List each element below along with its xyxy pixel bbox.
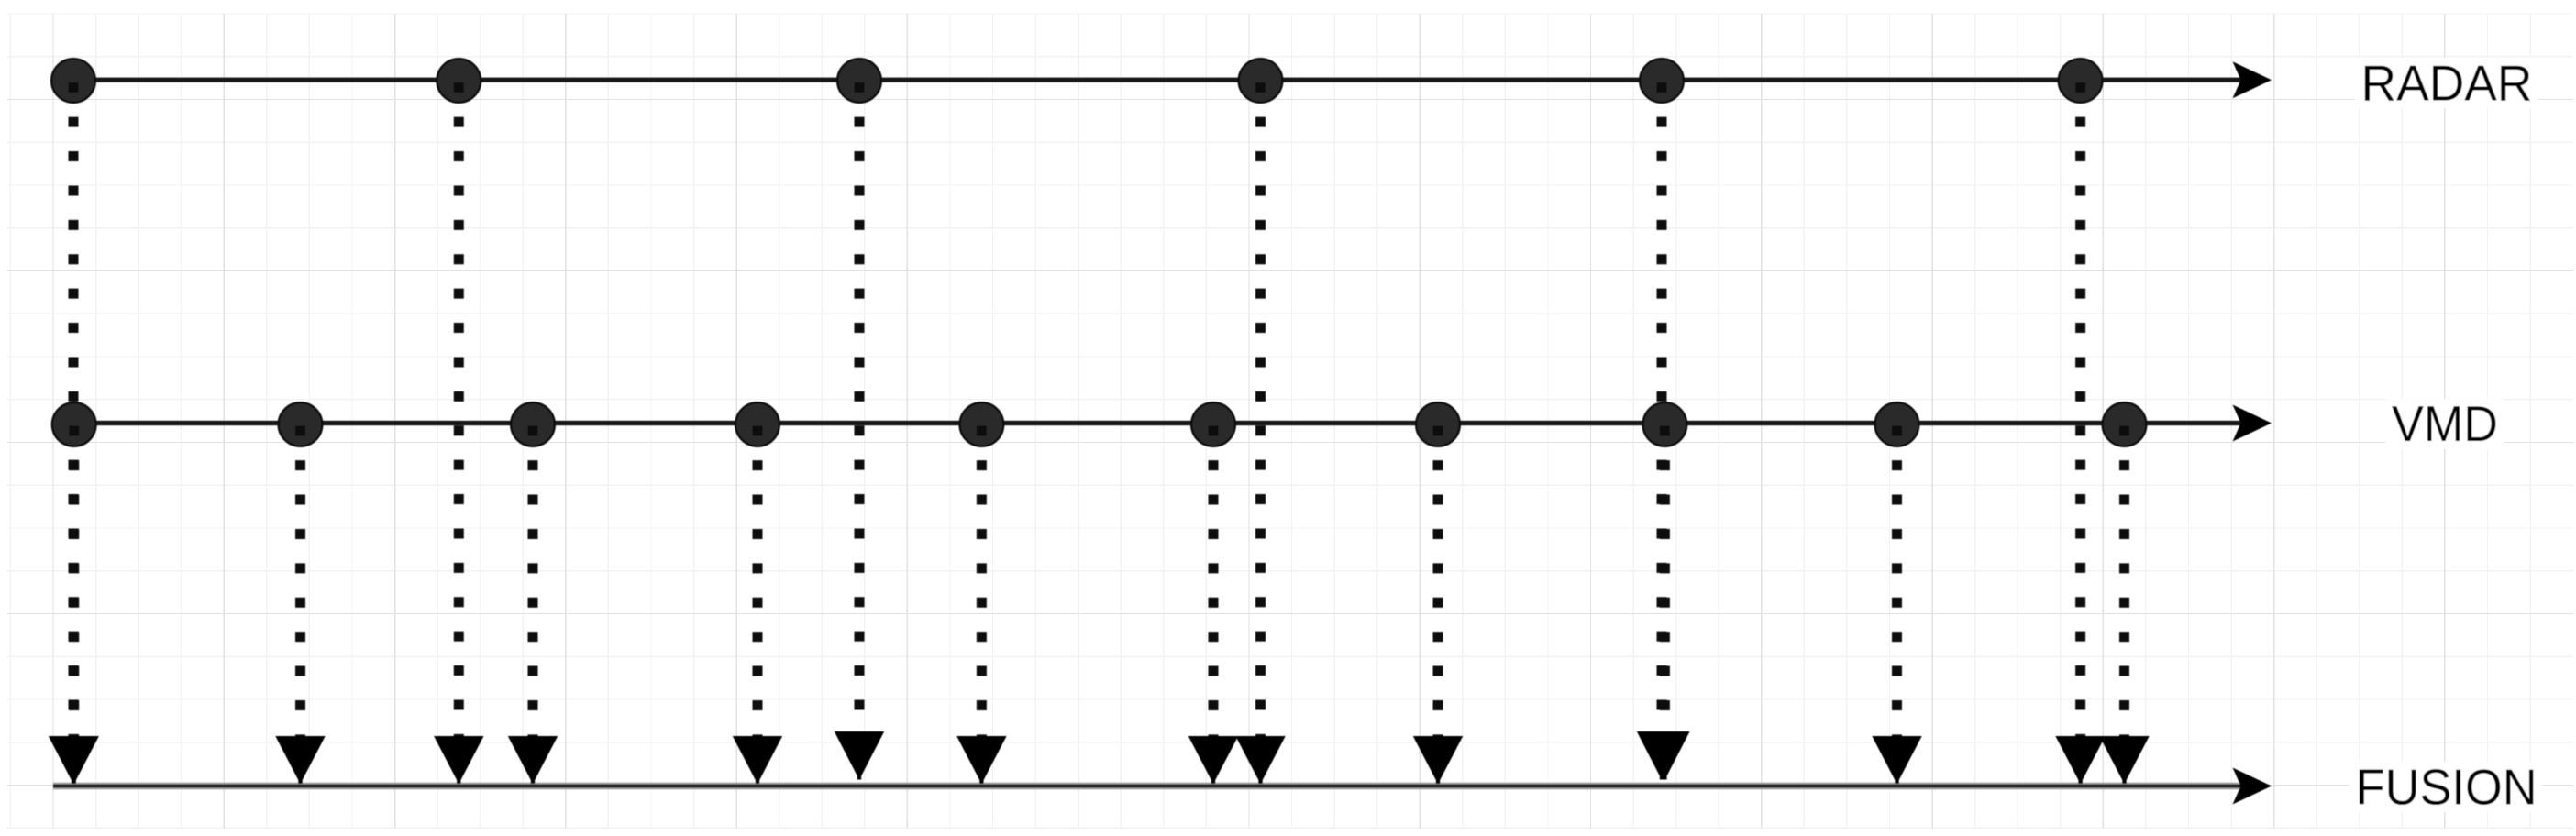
node VMD event dot 10 [2103,402,2147,446]
arrowhead on FUSION from VMD event 8 [1640,731,1689,780]
node VMD event dot 2 [279,402,323,446]
wire dotted sync line at x=327.5 (VMD event 2 to FUSION) [295,426,305,739]
wire dotted sync line at x=500.3 (RADAR event 2 to FUSION) [454,82,464,739]
node VMD event dot 3 [511,402,555,446]
node VMD event dot 6 [1191,402,1235,446]
node RADAR event dot 4 [1239,59,1283,103]
node VMD event dot 7 [1416,402,1460,446]
label RADAR [2355,55,2537,111]
wire dotted sync line at x=937 (RADAR event 3 to FUSION) [855,82,865,734]
arrowhead on FUSION from VMD event 6 [1188,736,1238,784]
arrowhead on FUSION from VMD event 9 [1872,736,1921,784]
wire dotted sync line at x=2268.6 (RADAR event 6 to FUSION) [2075,82,2085,739]
dotted-line squares over dots [69,82,79,93]
svg-text:VMD: VMD [2392,396,2498,452]
arrowhead on FUSION from RADAR event 6 [2055,736,2105,784]
svg-text:FUSION: FUSION [2356,760,2537,816]
arrowhead on FUSION from RADAR event 4 [1235,736,1285,784]
wire dotted sync line at x=1374.5 (RADAR event 4 to FUSION) [1255,82,1266,739]
wire dotted sync line at x=826 (VMD event 4 to FUSION) [753,426,763,739]
node RADAR event dot 3 [837,59,881,103]
node RADAR event dot 1 [51,59,95,103]
wire dotted sync line at x=2068.5 (VMD event 9 to FUSION) [1892,426,1902,739]
arrowhead on FUSION from VMD event 7 [1413,736,1463,784]
node RADAR event dot 2 [437,59,481,103]
wire VMD timeline [53,421,2242,425]
wire dotted sync line at x=1070.4 (VMD event 5 to FUSION) [977,426,987,739]
arrowhead on FUSION from VMD event 2 [275,736,325,784]
FUSION timeline arrowhead [2233,768,2272,805]
wire dotted sync line at x=1815.4 (VMD event 8 to FUSION) [1660,426,1670,734]
svg-text:RADAR: RADAR [2361,55,2533,111]
node VMD event dot 8 [1643,402,1687,446]
wire dotted sync line at x=80.7 (VMD event 1 to FUSION) [69,426,79,739]
arrowhead on FUSION from VMD event 3 [508,736,558,784]
arrowhead on FUSION from RADAR event 1 [49,736,98,784]
arrowhead on FUSION from RADAR event 3 [835,731,884,780]
wire FUSION timeline [53,784,2242,788]
node VMD event dot 4 [735,402,779,446]
label FUSION [2349,760,2542,816]
wire dotted sync line at x=80 (RADAR event 1 to FUSION) [69,82,79,739]
VMD timeline arrowhead [2233,405,2272,442]
node VMD event dot 1 [52,402,96,446]
wire RADAR timeline [53,78,2242,82]
arrowhead on FUSION from VMD event 5 [956,736,1006,784]
wire dotted sync line at x=2316.5 (VMD event 10 to FUSION) [2119,426,2129,739]
arrowhead on FUSION from VMD event 4 [733,736,782,784]
node RADAR event dot 6 [2059,59,2103,103]
label VMD [2385,396,2504,452]
arrowhead on FUSION from VMD event 1 [50,736,99,784]
wire dotted sync line at x=1568 (VMD event 7 to FUSION) [1433,426,1443,739]
node RADAR event dot 5 [1640,59,1684,103]
wire dotted sync line at x=581 (VMD event 3 to FUSION) [528,426,538,739]
arrowhead on FUSION from RADAR event 5 [1637,731,1686,780]
arrowhead on FUSION from VMD event 10 [2099,736,2149,784]
node VMD event dot 5 [960,402,1004,446]
node VMD event dot 9 [1875,402,1919,446]
RADAR timeline arrowhead [2233,61,2272,98]
arrowhead on FUSION from RADAR event 2 [434,736,483,784]
wire dotted sync line at x=1323 (VMD event 6 to FUSION) [1209,426,1219,739]
wire dotted sync line at x=1812 (RADAR event 5 to FUSION) [1657,82,1667,734]
